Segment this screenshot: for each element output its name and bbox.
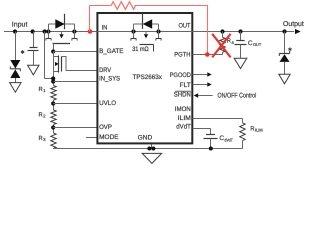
svg-text:MODE: MODE [99, 134, 119, 141]
svg-text:Input: Input [12, 21, 28, 28]
svg-text:TPS2663x: TPS2663x [133, 74, 163, 81]
svg-text:OVP: OVP [99, 124, 112, 131]
svg-text:FLT: FLT [180, 82, 191, 89]
svg-text:ON/OFF Control: ON/OFF Control [218, 93, 257, 100]
svg-text:OUT: OUT [179, 23, 191, 30]
svg-text:dVdT: dVdT [225, 137, 234, 142]
svg-text:Output: Output [283, 21, 304, 28]
svg-text:SHDN: SHDN [174, 91, 191, 98]
svg-text:ILIM: ILIM [178, 115, 191, 122]
svg-text:PGTH: PGTH [174, 52, 191, 59]
svg-text:31 mΩ: 31 mΩ [132, 46, 149, 53]
svg-text:OUT: OUT [253, 42, 262, 47]
svg-text:DRV: DRV [99, 67, 112, 74]
svg-text:IMON: IMON [175, 106, 191, 113]
svg-text:dVdT: dVdT [176, 123, 191, 130]
svg-text:GND: GND [138, 134, 153, 141]
svg-text:ILIM: ILIM [255, 128, 263, 133]
svg-text:IN_SYS: IN_SYS [99, 75, 121, 82]
svg-text:PGOOD: PGOOD [170, 72, 191, 79]
svg-text:UVLO: UVLO [99, 100, 116, 107]
svg-text:B_GATE: B_GATE [99, 48, 124, 55]
svg-text:IN: IN [102, 25, 108, 32]
